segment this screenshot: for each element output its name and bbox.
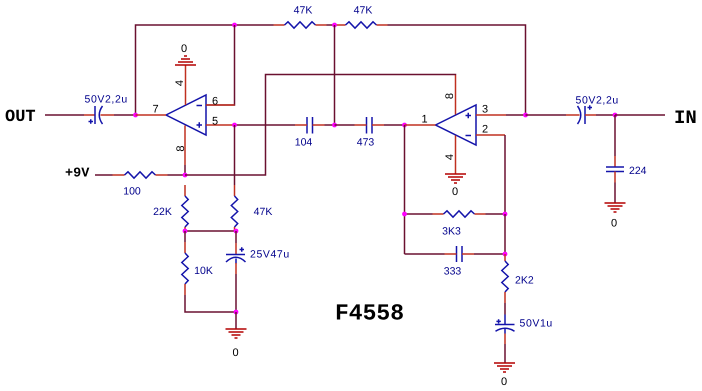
wire IN node to port	[615, 114, 665, 116]
svg-text:0: 0	[232, 347, 238, 359]
svg-text:224: 224	[629, 165, 647, 177]
svg-text:4: 4	[444, 154, 456, 160]
wire 3K3 row left	[405, 213, 433, 215]
svg-text:333: 333	[444, 266, 462, 278]
wire bottom node to ground	[235, 312, 237, 329]
svg-text:0: 0	[501, 376, 507, 388]
resistor R6 10K (vertical)	[182, 242, 188, 295]
node 3K3 right	[503, 212, 508, 217]
wire 104 to mid node	[325, 124, 335, 126]
ground G1 (above U1A, inverted)	[175, 56, 196, 65]
svg-text:IN: IN	[674, 107, 697, 129]
svg-text:0: 0	[181, 43, 187, 55]
ground G3 (under 224)	[605, 203, 626, 212]
wire 25V47u to bottom node	[235, 274, 237, 312]
wire mid vertical 47K junction to cap row	[334, 25, 336, 125]
wire 100 to pin8 node	[168, 174, 186, 176]
node pin1	[402, 123, 407, 128]
capacitor C7 50V1u (polarized)	[495, 315, 515, 345]
wire pin5 node to cap row	[235, 124, 296, 126]
wire 333 row left	[405, 253, 445, 255]
node +9V rail / pin8	[183, 173, 188, 178]
svg-text:5: 5	[212, 116, 218, 128]
resistor R5 47K (vertical)	[231, 185, 237, 231]
svg-text:50V1u: 50V1u	[520, 318, 553, 330]
svg-text:4: 4	[174, 80, 186, 86]
pin 6 (U1A inverting)	[206, 104, 235, 106]
capacitor C2 50V2,2u (input coupling)	[566, 105, 596, 124]
wire IN node down to 224	[614, 115, 616, 156]
wire C1 to out node	[114, 114, 136, 116]
svg-text:+9V: +9V	[65, 167, 90, 182]
svg-text:47K: 47K	[254, 206, 273, 218]
wire pin2 down to 3K3 row	[504, 135, 506, 214]
svg-text:OUT: OUT	[5, 108, 36, 127]
svg-text:47K: 47K	[354, 5, 373, 17]
node IN	[613, 113, 618, 118]
svg-text:F4558: F4558	[335, 301, 404, 327]
wire pin1 node down left feedback vertical	[404, 125, 406, 254]
svg-text:22K: 22K	[153, 206, 172, 218]
pin 5 (U1A non-inverting)	[206, 124, 235, 126]
pin 4 (U1A V+)	[185, 65, 187, 105]
wire pin3 to output node	[506, 114, 526, 116]
wire OUT lead-in	[45, 114, 84, 116]
node pin5	[232, 123, 237, 128]
svg-text:2: 2	[482, 124, 488, 136]
svg-text:0: 0	[452, 186, 458, 198]
resistor R7 3K3	[433, 211, 486, 217]
wire C2 to IN node	[596, 114, 615, 116]
svg-text:50V2,2u: 50V2,2u	[85, 94, 128, 106]
pin 4 (U1B V-)	[455, 136, 457, 175]
node top rail / inverting feedback	[232, 23, 237, 28]
wire 473 to pin1 node	[384, 124, 405, 126]
svg-text:100: 100	[123, 186, 141, 198]
wire mid node to 10K	[184, 231, 186, 242]
wire mid node to 25V47u	[235, 231, 237, 243]
wire pin5 node down to 47K	[234, 125, 236, 185]
node bottom	[234, 310, 239, 315]
resistor R8 2K2	[502, 254, 508, 303]
ground G4 (under 50V1u)	[494, 363, 515, 372]
svg-text:47K: 47K	[294, 5, 313, 17]
wire +9V rail to supply corner	[185, 75, 456, 176]
capacitor C4 473	[355, 117, 385, 134]
svg-text:25V47u: 25V47u	[250, 249, 290, 261]
wire 50V1u to ground	[504, 344, 506, 363]
pin 8 (U1A V-)	[184, 126, 186, 166]
wire 10K to bottom row	[185, 295, 236, 312]
ground G5 (bottom left)	[226, 329, 247, 338]
svg-text:8: 8	[444, 93, 456, 99]
wire 3K3 to right vertical	[486, 213, 506, 215]
svg-text:50V2,2u: 50V2,2u	[576, 95, 619, 107]
node OUT	[133, 113, 138, 118]
node cap row mid	[332, 123, 337, 128]
wire 333 to right node	[474, 253, 505, 255]
wire mid node row	[185, 230, 236, 232]
svg-text:473: 473	[357, 137, 375, 149]
pin 8 (U1B V+)	[455, 75, 457, 115]
wire +9V lead	[95, 174, 113, 176]
node mid right	[234, 229, 239, 234]
op-amp U1B triangle	[436, 105, 477, 145]
resistor R1 47K (top left)	[274, 22, 327, 28]
svg-text:10K: 10K	[194, 265, 213, 277]
svg-text:8: 8	[175, 145, 187, 151]
wire top rail right segment down to output node	[388, 25, 526, 115]
pin 7 (U1A output)	[136, 114, 167, 116]
svg-text:1: 1	[421, 114, 427, 126]
pin 1 (U1B output)	[405, 124, 436, 126]
svg-text:104: 104	[295, 137, 313, 149]
capacitor C8 333	[445, 246, 475, 262]
wire right vertical 3K3 to 333 row	[504, 214, 506, 254]
wire 224 to ground	[614, 183, 616, 204]
svg-text:6: 6	[212, 96, 218, 108]
svg-text:3: 3	[482, 104, 488, 116]
node 3K3 left	[402, 212, 407, 217]
capacitor C1 50V2,2u (output coupling)	[84, 106, 114, 124]
ground G2 (below U1B)	[445, 174, 466, 183]
node output right	[523, 113, 528, 118]
node mid left	[183, 229, 188, 234]
svg-text:2K2: 2K2	[515, 275, 534, 287]
wire feedback vertical to pin 6	[206, 25, 235, 105]
wire top rail mid	[327, 24, 335, 26]
resistor R2 47K (top right)	[335, 22, 388, 28]
resistor R3 100	[113, 172, 168, 178]
wire pin8 to +9V rail	[184, 165, 186, 175]
node 333 right	[503, 252, 508, 257]
capacitor C6 25V47u (polarized)	[226, 243, 246, 274]
svg-text:7: 7	[152, 104, 158, 116]
resistor R4 22K (vertical)	[182, 185, 188, 231]
wire output node to C2	[526, 114, 567, 116]
capacitor C3 104	[295, 117, 325, 134]
capacitor C5 224	[606, 156, 624, 183]
pin 2 (U1B inverting)	[476, 134, 505, 136]
wire 2K2 to C7	[504, 303, 506, 315]
wire top rail left segment	[136, 25, 274, 115]
svg-text:0: 0	[611, 218, 617, 230]
svg-text:3K3: 3K3	[442, 226, 461, 238]
op-amp U1A triangle	[166, 95, 206, 135]
wire mid node to 473	[335, 124, 355, 126]
pin 3 (U1B non-inverting)	[476, 114, 506, 116]
node between 47K resistors	[332, 23, 337, 28]
